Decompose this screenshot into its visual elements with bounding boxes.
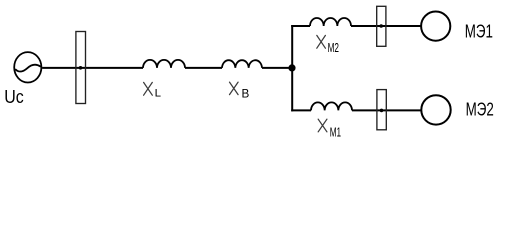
node dot on bus 3 xyxy=(380,109,384,113)
wire XB to junction xyxy=(262,67,293,69)
wire bottom branch left xyxy=(291,109,311,111)
label XM1 xyxy=(318,119,327,132)
busbar rect 2 top xyxy=(377,6,386,46)
inductor XM1 xyxy=(311,102,352,110)
inductor XB xyxy=(222,60,262,68)
label XM2 xyxy=(317,35,326,48)
sine wave inside source xyxy=(16,65,40,72)
AC source G1 xyxy=(14,52,41,82)
wire bottom branch right xyxy=(352,109,422,111)
label XB xyxy=(230,82,239,95)
busbar rect 1 xyxy=(76,32,86,104)
svg-text:M1: M1 xyxy=(330,124,341,139)
svg-text:МЭ2: МЭ2 xyxy=(466,99,494,120)
vertical branch wire xyxy=(291,25,293,111)
wire source to bus xyxy=(42,67,143,69)
svg-text:B: B xyxy=(242,87,250,101)
busbar rect 3 bottom xyxy=(377,90,386,130)
svg-text:M2: M2 xyxy=(328,40,339,55)
svg-text:Uc: Uc xyxy=(4,87,24,107)
svg-text:L: L xyxy=(155,88,161,100)
inductor XL xyxy=(143,60,185,68)
junction node xyxy=(288,64,295,71)
wire top branch left xyxy=(291,25,310,27)
wire top branch right xyxy=(351,25,422,27)
motor MEH2 circle xyxy=(421,95,450,124)
label XL xyxy=(144,82,153,95)
svg-text:МЭ1: МЭ1 xyxy=(465,21,493,42)
inductor XM2 xyxy=(310,18,351,26)
node dot on bus 2 xyxy=(379,24,383,28)
wire XL to XB xyxy=(185,67,222,69)
motor MEH1 circle xyxy=(421,12,450,41)
node dot on bus 1 xyxy=(79,66,83,70)
